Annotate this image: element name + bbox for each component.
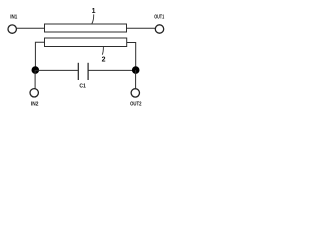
svg-text:1: 1 — [92, 8, 96, 15]
leader line for numeral 1 — [92, 14, 94, 23]
wire left node down to IN2 — [34, 70, 36, 89]
wire right lead of section 2 down to node — [127, 43, 136, 71]
leader line for numeral 2 — [102, 47, 103, 55]
transmission line section 1 — [45, 24, 127, 32]
terminal IN2 — [30, 89, 38, 97]
wire IN1 to line section 1 — [17, 27, 45, 29]
terminal OUT1 — [155, 25, 163, 33]
svg-text:IN1: IN1 — [10, 14, 17, 20]
node junction left — [32, 66, 40, 74]
svg-text:2: 2 — [102, 57, 106, 64]
node junction right — [132, 66, 140, 74]
transmission line section 2 — [45, 38, 127, 47]
svg-text:IN2: IN2 — [31, 102, 39, 108]
svg-text:OUT2: OUT2 — [130, 102, 142, 108]
svg-text:OUT1: OUT1 — [154, 14, 164, 20]
wire line section 1 to OUT1 — [127, 27, 156, 29]
terminal IN1 — [8, 25, 16, 33]
svg-text:C1: C1 — [79, 83, 86, 89]
capacitor C1 right plate — [87, 63, 89, 80]
wire right node down to OUT2 — [135, 70, 137, 88]
wire left node to capacitor — [35, 69, 78, 71]
terminal OUT2 — [131, 89, 139, 97]
capacitor C1 left plate — [77, 63, 79, 80]
wire left lead of section 2 down to node — [35, 42, 44, 70]
wire capacitor to right node — [89, 69, 136, 71]
